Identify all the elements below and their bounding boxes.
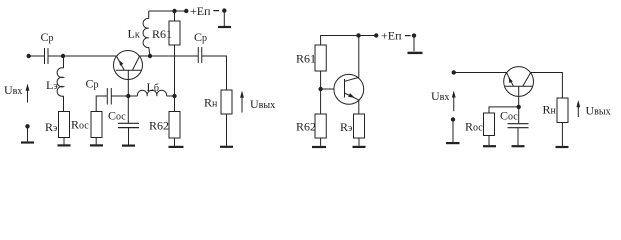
node base node middle bbox=[318, 87, 322, 91]
node base junction right bbox=[517, 105, 521, 109]
ground under Rн right bbox=[556, 146, 569, 148]
wire base junction down to Cос right bbox=[518, 107, 520, 123]
wire rail to R61 bbox=[174, 11, 176, 21]
ground under Rэ bbox=[58, 144, 71, 146]
wire Rос to ground right bbox=[488, 136, 490, 146]
ground under Cос right bbox=[512, 145, 525, 147]
ground under R62 bbox=[169, 146, 184, 148]
capacitor Cос bbox=[118, 123, 139, 127]
node input terminal right bbox=[452, 70, 456, 74]
wire input bottom to ground bbox=[27, 126, 29, 141]
minus dash bbox=[213, 10, 219, 12]
wire divider node to R62 bbox=[174, 96, 176, 112]
svg-text:Rэ: Rэ bbox=[340, 120, 352, 134]
arrow Uвых up right bbox=[576, 100, 580, 117]
wire collector to Rн corner right bbox=[531, 73, 563, 99]
wire Cос to ground bbox=[128, 128, 130, 145]
svg-text:Cр: Cр bbox=[86, 76, 99, 90]
inductor Lк bbox=[143, 18, 150, 56]
ground input bottom right bbox=[446, 142, 460, 144]
wire rail corner down to Lк bbox=[148, 11, 150, 19]
wire Lб to divider node bbox=[167, 95, 175, 97]
svg-text:Cр: Cр bbox=[41, 30, 54, 44]
wire base junction down to Cос bbox=[127, 96, 129, 123]
wire input to Cp1 bbox=[29, 55, 45, 57]
wire Rн to ground right bbox=[561, 123, 563, 146]
resistor Rн bbox=[221, 90, 232, 114]
node +Еп terminal bbox=[184, 9, 188, 13]
wire Rос to ground bbox=[95, 138, 97, 145]
inductor Lэ bbox=[57, 68, 63, 96]
svg-text:R62: R62 bbox=[149, 119, 169, 133]
wire input bottom to ground right bbox=[452, 120, 454, 143]
svg-text:+Еп: +Еп bbox=[381, 29, 402, 43]
wire Cp2 to Rос corner bbox=[96, 96, 107, 112]
node R61 rail junction bbox=[172, 9, 176, 13]
node input bottom terminal bbox=[25, 124, 29, 128]
node supply minus middle bbox=[412, 33, 416, 37]
resistor R62 bbox=[169, 112, 180, 139]
transistor VT1 bbox=[114, 51, 143, 97]
wire base junction to Rос corner right bbox=[489, 107, 519, 113]
node +Еп terminal middle bbox=[374, 33, 378, 37]
svg-text:R61: R61 bbox=[152, 27, 172, 41]
svg-text:Rн: Rн bbox=[204, 95, 218, 109]
wire R61 to R62 bbox=[320, 71, 322, 114]
ground supply middle bbox=[408, 52, 423, 54]
wire R62 to ground bbox=[174, 138, 176, 146]
arrow Uвых up bbox=[240, 91, 244, 113]
wire collector to output bbox=[140, 55, 199, 57]
capacitor Cp2 bbox=[107, 88, 111, 105]
capacitor Cp3 output bbox=[198, 47, 202, 63]
resistor R61 bbox=[169, 21, 180, 45]
svg-text:Uвых: Uвых bbox=[586, 104, 611, 118]
node supply minus terminal bbox=[222, 8, 226, 12]
svg-text:Cос: Cос bbox=[500, 109, 518, 123]
svg-text:Rос: Rос bbox=[465, 120, 483, 134]
resistor Rэ bbox=[59, 112, 70, 138]
node junction Lэ tap bbox=[61, 54, 65, 58]
svg-text:Rн: Rн bbox=[543, 103, 557, 117]
arrow Uвх up right bbox=[452, 91, 456, 112]
svg-text:Rос: Rос bbox=[71, 118, 89, 132]
wire R62 to ground bbox=[320, 138, 322, 146]
wire supply minus to ground middle bbox=[413, 36, 415, 52]
power rail top bbox=[149, 10, 187, 12]
inductor Lб bbox=[137, 90, 166, 96]
wire Cp3 to Rн corner bbox=[202, 56, 227, 90]
resistor Rн right bbox=[557, 98, 568, 123]
wire Rэ to ground middle bbox=[358, 138, 360, 146]
resistor Rэ middle bbox=[354, 114, 365, 138]
ground under Rос right bbox=[483, 145, 496, 147]
svg-text:+Еп: +Еп bbox=[190, 4, 211, 18]
svg-text:Rэ: Rэ bbox=[45, 120, 57, 134]
ground under Rн bbox=[220, 146, 233, 148]
wire Rн to ground bbox=[226, 114, 228, 146]
wire supply minus to ground bbox=[223, 11, 225, 26]
svg-text:R61: R61 bbox=[296, 52, 316, 66]
svg-text:Uвых: Uвых bbox=[250, 97, 275, 111]
wire collector up to rail bbox=[358, 36, 360, 78]
power rail middle bbox=[321, 36, 377, 46]
resistor R62 middle bbox=[315, 114, 326, 138]
wire base wire middle bbox=[321, 88, 334, 90]
svg-text:Lэ: Lэ bbox=[46, 78, 58, 92]
node rail junction middle bbox=[356, 33, 360, 37]
ground supply left bbox=[218, 26, 231, 28]
node input bottom terminal right bbox=[451, 117, 455, 121]
svg-text:R62: R62 bbox=[296, 120, 316, 134]
capacitor Cp1 bbox=[45, 48, 49, 64]
node input top terminal bbox=[27, 54, 31, 58]
ground under R62 middle bbox=[312, 146, 326, 148]
transistor VT3 bbox=[504, 67, 534, 107]
wire Rэ to ground bbox=[63, 138, 65, 145]
svg-text:Lб: Lб bbox=[147, 80, 159, 94]
wire base junction to Cp2 bbox=[111, 95, 128, 97]
resistor Rос bbox=[91, 112, 102, 138]
ground under Rос bbox=[90, 144, 103, 146]
resistor R61 middle bbox=[315, 45, 326, 71]
wire Lэ to Rэ bbox=[63, 96, 65, 112]
svg-text:Lк: Lк bbox=[128, 27, 140, 41]
transistor VT2 bbox=[334, 74, 364, 104]
svg-text:Uвх: Uвх bbox=[431, 89, 449, 103]
node base junction bbox=[126, 94, 130, 98]
ground under Rэ middle bbox=[353, 146, 366, 148]
ground under Cос bbox=[122, 145, 135, 147]
node divider junction bbox=[172, 94, 176, 98]
resistor Rос right bbox=[484, 113, 495, 136]
arrow Uвх up bbox=[26, 84, 30, 103]
svg-text:Cос: Cос bbox=[108, 109, 126, 123]
wire Cос to ground right bbox=[517, 128, 519, 145]
wire R61 down to base divider node bbox=[174, 45, 176, 96]
wire base junction to Lб bbox=[128, 95, 137, 97]
minus dash middle bbox=[405, 35, 411, 37]
svg-text:Uвх: Uвх bbox=[4, 83, 22, 97]
svg-text:Cр: Cр bbox=[194, 30, 207, 44]
wire input to emitter right bbox=[454, 72, 507, 74]
ground input bottom bbox=[21, 141, 34, 143]
wire junction down to Lэ bbox=[63, 56, 65, 68]
node collector junction bbox=[148, 54, 152, 58]
capacitor Cос right bbox=[508, 124, 529, 128]
wire Cp1 to emitter bbox=[48, 55, 117, 57]
wire emitter to Rэ bbox=[358, 100, 360, 114]
